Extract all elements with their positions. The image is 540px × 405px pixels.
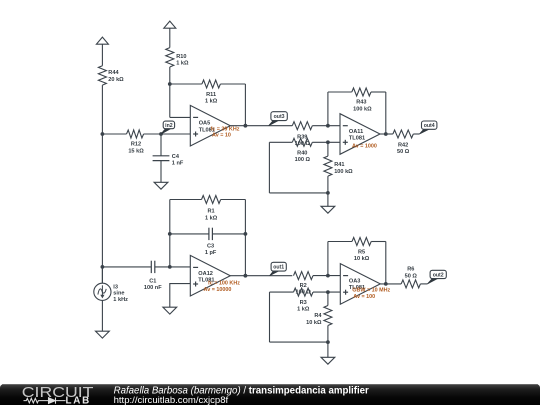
wire bottom ground rail lower (270, 341, 328, 343)
svg-text:1 kHz: 1 kHz (113, 297, 128, 303)
wire R6 to out2 (420, 283, 427, 285)
power supply arrow V+ above R10 (164, 21, 176, 28)
svg-text:sine: sine (113, 291, 124, 297)
svg-text:R41: R41 (334, 162, 344, 168)
resistor R42 (393, 130, 413, 138)
svg-text:1 nF: 1 nF (172, 160, 184, 166)
op-amp OA12 (190, 255, 230, 296)
resistor R6 (401, 280, 420, 288)
node plus-R4 junction (326, 290, 330, 294)
svg-text:out2: out2 (433, 273, 444, 279)
wire feedback left vertical lower (169, 200, 171, 267)
wire R4 top lead (327, 292, 329, 305)
node output-R43 junction (384, 132, 388, 136)
wire C3 left (170, 233, 209, 235)
wire R5 right vertical (385, 242, 387, 284)
flag in2 (161, 128, 171, 134)
svg-text:1 kΩ: 1 kΩ (205, 98, 218, 104)
capacitor C4 (153, 155, 170, 157)
wire R43 right lead (371, 91, 386, 93)
wire R43 left vertical (327, 92, 329, 126)
svg-text:out1: out1 (273, 265, 284, 271)
node C3 left junction (168, 232, 172, 236)
resistor R4 (324, 306, 332, 326)
svg-text:R2: R2 (300, 283, 307, 289)
svg-text:http://circuitlab.com/cxjcp8f: http://circuitlab.com/cxjcp8f (114, 395, 229, 405)
wire OA3 output (380, 283, 401, 285)
svg-text:1 kΩ: 1 kΩ (297, 307, 310, 313)
ground below C4 (160, 181, 162, 184)
svg-text:Av = 10: Av = 10 (212, 133, 231, 139)
resistor R43 (352, 88, 371, 96)
svg-text:R1: R1 (208, 209, 215, 215)
wire OA5 output (230, 125, 292, 127)
wire rail to R12 (102, 133, 126, 135)
flag out3 (269, 120, 279, 126)
resistor R11 (202, 80, 221, 88)
svg-text:Av = 100: Av = 100 (353, 294, 375, 300)
wire OA11 output (380, 133, 393, 135)
wire R43 right vertical (385, 92, 387, 134)
resistor R39 (292, 122, 312, 130)
svg-text:R42: R42 (398, 143, 408, 149)
svg-text:R5: R5 (358, 250, 365, 256)
wire R40 left vertical (268, 142, 270, 193)
ground lower-right block (327, 356, 329, 359)
wire ground stem upper block (327, 193, 329, 206)
svg-text:10 kΩ: 10 kΩ (354, 256, 370, 262)
wire rail to C1 (102, 266, 151, 268)
svg-text:Av = 1000: Av = 1000 (352, 144, 377, 150)
op-amp OA5 (190, 105, 230, 146)
node output-R5 junction (384, 282, 388, 286)
wire arrow to R44 (101, 44, 103, 65)
resistor R44 (98, 66, 106, 85)
wire R39 to minus junction (312, 125, 340, 127)
flag out1 (270, 271, 280, 276)
resistor R12 (127, 130, 144, 138)
svg-text:20 kΩ: 20 kΩ (108, 77, 124, 83)
svg-text:R11: R11 (206, 92, 216, 98)
svg-text:50 Ω: 50 Ω (405, 273, 418, 279)
wire ground stem lower block (327, 342, 329, 357)
svg-text:1 pF: 1 pF (205, 250, 217, 256)
node minus-R5 junction (326, 274, 330, 278)
svg-text:C1: C1 (149, 279, 156, 285)
node R10-R11 junction (168, 82, 172, 86)
node R41-ground junction (326, 191, 330, 195)
wire R41 bottom lead (327, 176, 329, 193)
op-amp OA3 (340, 264, 380, 305)
wire C4 to ground (160, 161, 162, 183)
ground below I3 (101, 330, 103, 333)
svg-text:out4: out4 (424, 123, 435, 129)
svg-text:R39: R39 (297, 135, 307, 141)
wire R12 to node in2 (144, 133, 161, 135)
svg-text:R12: R12 (131, 142, 141, 148)
resistor R10 (166, 48, 174, 67)
wire arrow to R10 (169, 28, 171, 47)
svg-text:R40: R40 (297, 150, 307, 156)
capacitor C3 (208, 228, 210, 240)
svg-text:1 kΩ: 1 kΩ (176, 60, 189, 66)
svg-text:out3: out3 (274, 114, 285, 120)
flag out4 (419, 129, 429, 134)
node output-R1 junction (244, 274, 248, 278)
svg-text:in2: in2 (165, 123, 173, 129)
svg-text:R10: R10 (176, 54, 186, 60)
ground upper-right block (327, 205, 329, 208)
resistor R41 (324, 156, 332, 176)
svg-text:R6: R6 (407, 267, 414, 273)
wire R11 right lead (220, 83, 245, 85)
wire R3 left lead (270, 291, 294, 293)
svg-text:R4: R4 (314, 313, 322, 319)
svg-text:1 kΩ: 1 kΩ (205, 215, 218, 221)
node C3 right junction (244, 232, 248, 236)
wire R5 left lead (328, 241, 352, 243)
wire R42 to out4 (413, 133, 419, 135)
node in2 junction (159, 132, 163, 136)
node plus-R41 junction (326, 140, 330, 144)
wire in2 to opamp plus (161, 133, 190, 135)
svg-text:R3: R3 (300, 300, 307, 306)
wire R3 left vertical (269, 292, 271, 342)
current source I3 (101, 267, 103, 283)
resistor R2 (294, 272, 314, 280)
wire R11 down to output (244, 84, 246, 126)
wire C3 right (212, 233, 245, 235)
wire R1 right lead (221, 199, 246, 201)
logo diode (49, 398, 66, 404)
svg-text:100 kΩ: 100 kΩ (353, 106, 372, 112)
svg-text:C4: C4 (172, 154, 180, 160)
flag out2 (427, 278, 438, 284)
power supply arrow V+ (96, 37, 108, 44)
wire R3 to plus junction (313, 291, 340, 293)
wire R4 bottom lead (327, 326, 329, 343)
svg-text:15 kΩ: 15 kΩ (128, 148, 144, 154)
wire R2 to minus junction (313, 275, 340, 277)
svg-text:Av = 10000: Av = 10000 (204, 287, 232, 293)
wire junction down to minus row (169, 84, 171, 117)
wire I3 to ground (101, 300, 103, 331)
capacitor C1 (150, 261, 152, 273)
svg-text:100 Ω: 100 Ω (295, 157, 311, 163)
wire R5 left vertical (327, 242, 329, 276)
svg-text:OA5: OA5 (199, 121, 211, 127)
svg-text:R44: R44 (108, 70, 119, 76)
wire R5 right lead (371, 241, 386, 243)
wire OA12 output (230, 275, 292, 277)
svg-text:TL081: TL081 (349, 135, 365, 141)
node R4-ground junction (326, 340, 330, 344)
node rail-R12 junction (101, 132, 105, 136)
wire R41 top lead (327, 142, 329, 156)
node output-R11 junction (244, 124, 248, 128)
svg-text:C3: C3 (207, 244, 214, 250)
svg-text:fc = 39 KHz: fc = 39 KHz (211, 126, 240, 132)
svg-text:50 Ω: 50 Ω (397, 149, 410, 155)
node minus-R43 junction (326, 124, 330, 128)
svg-text:LAB: LAB (66, 396, 92, 405)
wire R40 left lead (269, 141, 292, 143)
resistor R1 (202, 196, 221, 204)
wire R11 left lead (170, 83, 202, 85)
wire plus to ground corner (170, 284, 191, 308)
wire R40 to plus junction (312, 141, 340, 143)
svg-text:R43: R43 (356, 100, 366, 106)
svg-text:OA12: OA12 (198, 271, 213, 277)
wire C1 to minus junction (155, 266, 191, 268)
node minus-feedback junction (168, 265, 172, 269)
svg-text:10 kΩ: 10 kΩ (306, 320, 322, 326)
svg-text:fc = 100 KHz: fc = 100 KHz (208, 281, 240, 287)
wire bottom ground rail upper (269, 192, 328, 194)
svg-text:OA11: OA11 (349, 129, 363, 135)
op-amp OA11 (340, 114, 380, 155)
ground below OA12 plus (169, 306, 171, 309)
wire feedback right vertical lower (244, 200, 246, 276)
footer bar (0, 384, 540, 405)
wire minus row to opamp (170, 116, 191, 118)
svg-text:GBW = 10 MHz: GBW = 10 MHz (352, 288, 390, 294)
wire R43 left lead (328, 91, 352, 93)
svg-text:100 kΩ: 100 kΩ (334, 169, 353, 175)
resistor R40 (292, 138, 312, 146)
logo resistor squiggle (24, 398, 49, 403)
wire left rail (101, 85, 103, 283)
node rail-C1 junction (101, 265, 105, 269)
resistor R3 (294, 288, 314, 296)
resistor R5 (352, 238, 371, 246)
wire R1 left lead (170, 199, 202, 201)
svg-text:OA3: OA3 (349, 279, 361, 285)
wire R10 to junction (169, 67, 171, 84)
wire in2 to C4 (160, 134, 162, 156)
svg-text:I3: I3 (113, 285, 118, 291)
svg-text:100 nF: 100 nF (144, 285, 162, 291)
